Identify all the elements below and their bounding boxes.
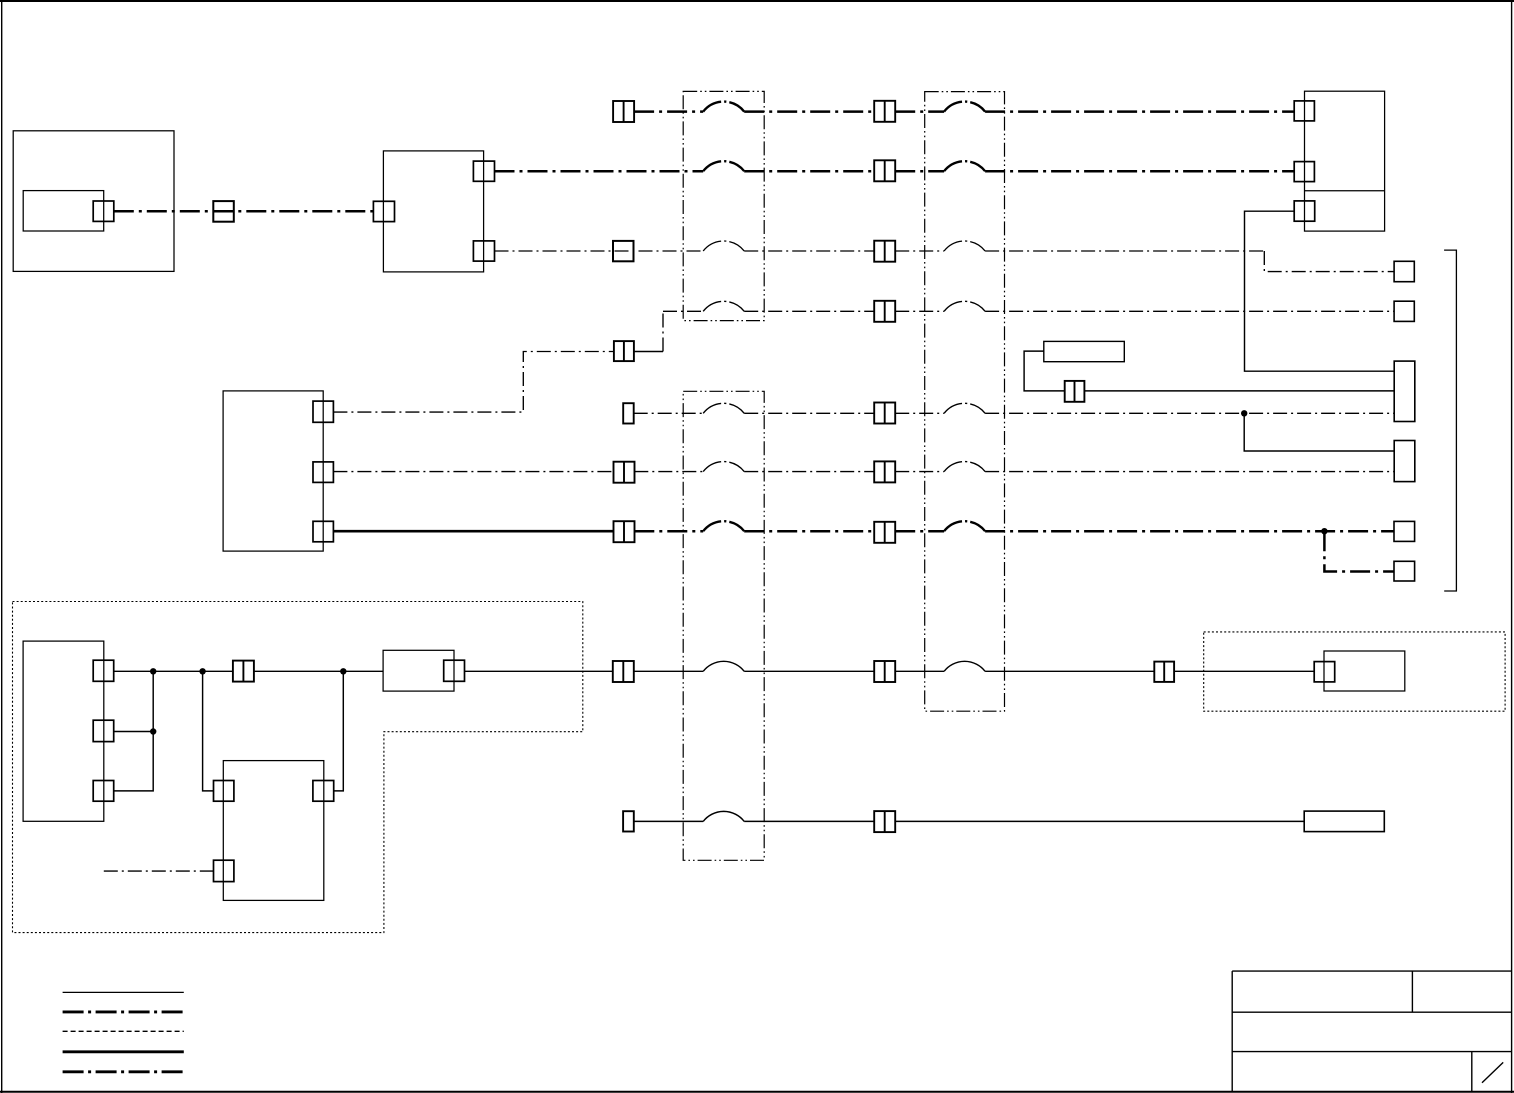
in-line connector row H (between harnesses) [874,522,895,543]
connector box4 pin 2 [93,720,114,741]
connector box5 pin 1 (left top) [214,781,234,802]
in-line connector row G (divided) [614,462,635,483]
connector top-right unit pin 1 [1294,101,1314,121]
wire row H branch (heavy dash-dot) [1324,531,1394,571]
grommet bump row H in W1 [703,521,744,531]
terminal square row D (right) [1394,261,1414,281]
in-line connector row A (between harnesses) [874,101,895,122]
wire row E horizontal (thin dash-dot) [663,310,1394,312]
in-line connector row B (between harnesses) [874,160,895,181]
wire row F branch to connector 2 (solid) [1244,413,1394,451]
inner unit box (top-left) [23,191,104,231]
half connector (row J start) [623,811,634,831]
legend line 1 (thin solid) [63,991,184,993]
wire row D step-down to terminal [1264,251,1394,272]
grommet bump row I in W1 [703,661,744,671]
connector on inner unit (pin) [93,201,114,221]
terminal square row E (right) [1394,301,1414,321]
connector box3 pin 1 [313,401,333,422]
dotted enclosure (lower-right unit) [1204,632,1505,711]
in-line connector row I (divided, x1154) [1154,662,1174,682]
connector box3 pin 2 [313,462,333,483]
in-line connector row D (between harnesses) [874,241,895,262]
connector box3 pin 3 [313,521,333,542]
in-line connector row H (divided) [614,521,635,542]
component box 5 (lower unit) [223,761,323,901]
tall connector 2 (right) [1394,441,1415,482]
wire row I right of relay (solid) [465,670,1315,672]
joint connector (fuse branch, divided) [1065,381,1085,402]
component box 4 (bottom-left unit) [23,641,104,821]
in-line connector row G (between harnesses) [874,461,895,482]
grommet bump row F in W1 [703,403,744,413]
wire row E riser (thin dash-dot) [662,311,664,351]
wire row I: box4 pin1 to relay (solid) [114,670,383,672]
dotted enclosure (lower-left assembly) [13,602,583,933]
grommet bump row A in W1 [703,102,744,112]
wire row E link to riser (solid) [634,351,663,353]
terminal connector (row A start) [613,101,634,122]
branch wire: junction-c down to box5 pin2 (solid) [334,671,344,791]
connector box2 bottom-right (pin) [473,241,494,261]
connector box5 pin 2 (right top) [313,781,334,802]
fuse connector row I (divided) [233,661,254,682]
in-line connector row J (between harnesses) [874,811,895,832]
terminal square row H lower (right) [1394,561,1415,581]
wire row B (heavy dash-dot) [495,170,1295,173]
harness boundary W2 [925,92,1005,712]
component box (top-right unit) [1305,91,1385,231]
connector relay output (pin) [444,660,465,681]
in-line connector row I (divided, x613) [613,661,634,682]
grommet bump row J in W1 [703,811,744,821]
legend line 3 (thin dashed) [63,1030,184,1032]
branch wire: junction-b down to box5 pin1 (solid) [203,671,214,791]
component box (top-left unit) [13,131,174,272]
half connector (row F start) [623,403,634,423]
wire fuse branch to tall connector (solid) [1084,390,1394,392]
junction row I c [340,668,346,674]
connector box5 pin 3 (left lower) [214,860,234,881]
component box 2 (upper middle) [383,151,483,272]
in-line connector (plain square, row C) [213,201,234,222]
bracket (right connector group) [1444,250,1456,591]
in-line connector row F (between harnesses) [874,403,895,424]
grommet bump row H in W2 [944,521,985,531]
connector box4 pin 1 [93,660,114,681]
grommet bump row I in W2 [944,661,985,671]
legend line 2 (heavy dash-dot) [63,1010,184,1013]
junction row F [1241,410,1247,416]
component box (bottom-right unit) [1324,651,1405,691]
title block [1232,970,1511,972]
legend line 5 (heavy dash-dot) [63,1070,184,1073]
wire from top-right unit pin3 (solid) [1245,211,1395,371]
in-line connector row D (plain square) [613,241,634,261]
wire row F (thin dash-dot) [634,412,1394,414]
fuse/label box (right) [1044,341,1125,361]
grommet bump row A in W2 [944,102,985,112]
junction row I a [150,668,156,674]
grommet bump row F in W2 [944,403,985,413]
wire row H right (heavy dash-dot) [634,530,1394,533]
wire: inner unit to in-line connector (heavy dash-dot) [114,210,214,213]
grommet bump row D in W1 [703,241,744,251]
in-line connector row E (between harnesses) [874,301,895,322]
in-line connector row I (between harnesses) [874,661,895,682]
wire row G right (thin dash-dot) [634,471,1394,473]
connector top-right unit pin 2 [1294,162,1314,182]
connector box2 left (pin) [373,201,394,221]
branch wire: junction-a down to box4 pin3 (solid) [114,671,154,791]
connector bottom-right unit (pin) [1314,662,1335,682]
wire row D (thin dash-dot) [495,250,1265,252]
component box 3 (middle left) [223,391,323,551]
connector box2 top-right (pin) [473,161,494,181]
legend line 4 (thick solid) [63,1050,184,1053]
junction row I b [199,668,205,674]
connector top-right unit pin 3 [1294,201,1315,221]
terminal square row H upper (right) [1394,521,1415,541]
stub wire to box5 pin3 (thin dash-dot) [104,870,214,872]
wire row E from box3 pin1 (thin dash-dot) [333,352,614,413]
title block diagonal slash [1482,1062,1503,1082]
grommet bump row B in W2 [944,161,985,171]
wire row G left (thin dash-dot) [333,471,613,473]
grommet bump row E in W2 [944,301,985,311]
grommet bump row G in W1 [703,462,744,472]
joint connector row E (divided) [614,341,634,361]
junction row H [1321,528,1327,534]
junction row I d [150,728,156,734]
wire from fuse box to joint connector (solid) [1024,351,1065,391]
wire row A (heavy dash-dot) [634,110,1294,113]
wire: in-line connector to box 2 (heavy dash-dot) [213,210,373,213]
wire row J (solid) [634,820,1304,822]
connector box4 pin 3 [93,781,114,802]
terminal bar row J (right) [1304,811,1384,832]
harness boundary W1 lower section [683,391,764,860]
grommet bump row D in W2 [944,241,985,251]
tall connector 1 (right) [1394,361,1415,421]
wire row H left (thick solid) [333,530,613,533]
branch wire: box4 pin2 to riser (solid) [114,731,154,733]
grommet bump row G in W2 [944,462,985,472]
relay box (bottom-left) [383,650,454,691]
grommet bump row E in W1 [703,301,744,311]
harness boundary W1 upper section [683,91,764,320]
grommet bump row B in W1 [703,161,744,171]
